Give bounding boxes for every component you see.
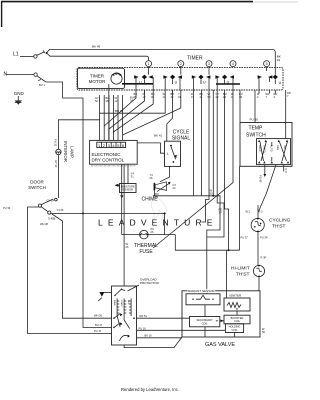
wire timer drop to temp switch left xyxy=(239,90,241,123)
svg-text:RACK: RACK xyxy=(258,145,261,152)
wire diagonal run xyxy=(153,94,233,249)
svg-text:DEL: DEL xyxy=(283,145,286,150)
svg-text:PU 32: PU 32 xyxy=(54,139,58,147)
svg-text:PROTECTOR: PROTECTOR xyxy=(140,281,160,285)
wire fuse to igniter bus xyxy=(175,235,239,251)
cycle signal label xyxy=(172,130,191,142)
thermal fuse label xyxy=(134,243,158,255)
timer terminal 4 xyxy=(230,61,236,67)
svg-text:LAMP: LAMP xyxy=(70,146,75,158)
svg-text:1: 1 xyxy=(148,62,150,66)
svg-text:PU 3P: PU 3P xyxy=(260,236,268,240)
svg-text:BK 49: BK 49 xyxy=(92,44,101,48)
hi-limit thermostat xyxy=(253,265,264,278)
svg-text:2: 2 xyxy=(180,62,182,66)
wire door bus down to fuse line xyxy=(164,213,166,234)
svg-text:TIMER: TIMER xyxy=(187,56,203,62)
wire BK 49 top run xyxy=(47,49,276,74)
label W 26 xyxy=(126,242,129,249)
overload protector contact xyxy=(114,289,125,297)
node thermal junction xyxy=(164,212,166,214)
wire temp switch left down xyxy=(239,166,241,250)
label BK 49 right xyxy=(277,55,281,63)
svg-text:SENSOR: SENSOR xyxy=(122,188,133,192)
coil link contacts xyxy=(221,320,224,323)
svg-text:SIGNAL: SIGNAL xyxy=(172,136,191,142)
igniter box xyxy=(224,298,250,311)
svg-text:GY 34: GY 34 xyxy=(47,199,55,203)
motor ground xyxy=(98,292,111,301)
gas valve assembly box xyxy=(182,291,260,337)
wire temp switch R2 stub xyxy=(283,165,285,172)
wire motor to EDC xyxy=(108,84,110,140)
svg-text:U: U xyxy=(279,81,282,85)
svg-text:U: U xyxy=(175,81,178,85)
svg-text:G 48B: G 48B xyxy=(48,217,56,221)
holding coil box xyxy=(225,324,243,333)
label RD 3P xyxy=(219,208,223,215)
wire door switch G48B down xyxy=(52,214,112,318)
label Y4 31 xyxy=(131,172,135,179)
svg-text:U: U xyxy=(203,81,206,85)
svg-text:TIMED: TIMED xyxy=(263,145,266,153)
timer motor M1 xyxy=(111,73,122,84)
wire chime stub xyxy=(153,190,155,195)
wire timer drop 209 xyxy=(208,90,210,196)
svg-text:BU 1: BU 1 xyxy=(39,83,45,87)
wire N down to motor xyxy=(83,213,112,327)
svg-text:MOTOR: MOTOR xyxy=(89,79,106,84)
label cluster EDC feeds xyxy=(95,96,134,104)
temp switch contact box xyxy=(257,139,291,165)
svg-text:COIL: COIL xyxy=(234,319,241,323)
svg-text:RADIANT SENSOR: RADIANT SENSOR xyxy=(188,289,215,293)
svg-text:CYCLING: CYCLING xyxy=(269,218,291,224)
svg-text:RD 51: RD 51 xyxy=(140,314,148,318)
overload pointer xyxy=(128,285,140,291)
motor windings xyxy=(113,299,135,329)
wire EDC to motor xyxy=(123,164,125,286)
svg-text:PU 17: PU 17 xyxy=(94,329,102,333)
svg-text:5: 5 xyxy=(266,62,268,66)
overload protector label xyxy=(140,278,160,286)
wire cycling to hi-limit xyxy=(257,232,259,266)
wire N lead xyxy=(6,74,34,76)
node bracket junction xyxy=(228,249,230,251)
node BK49 junction xyxy=(46,52,48,54)
wire cycle signal to chime xyxy=(160,166,170,181)
wire timer drop bracket c xyxy=(207,90,224,237)
terminal stubs below timer box xyxy=(144,90,275,94)
door switch label xyxy=(28,180,46,191)
svg-text:WH 36: WH 36 xyxy=(94,314,102,318)
centrifugal switch arc xyxy=(120,335,130,341)
svg-text:3P: 3P xyxy=(219,211,222,215)
svg-text:GND: GND xyxy=(14,91,25,96)
svg-text:PU 40: PU 40 xyxy=(259,175,263,183)
svg-text:SWITCH: SWITCH xyxy=(246,133,266,139)
wire motor aux out xyxy=(137,329,226,331)
wire to timer cam 1 xyxy=(47,53,149,60)
wire timer drop 193 xyxy=(192,90,194,196)
svg-text:DOOR: DOOR xyxy=(30,180,44,185)
secondary coil box xyxy=(190,317,220,327)
svg-text:TIMER: TIMER xyxy=(90,74,105,79)
node N junction door line xyxy=(82,212,84,214)
timer terminal 1 xyxy=(146,61,152,67)
ground GND xyxy=(14,91,25,105)
label W 50 bottom xyxy=(262,327,265,334)
wire door switch left to bottom left xyxy=(28,207,112,334)
svg-text:BK 16: BK 16 xyxy=(145,334,153,338)
timer cam switch 1 xyxy=(134,67,153,90)
svg-text:LEADVENTURE: LEADVENTURE xyxy=(98,218,218,228)
svg-text:R 2: R 2 xyxy=(284,169,288,174)
booster coil box xyxy=(224,315,250,324)
wire hi-limit to gas valve xyxy=(258,277,260,291)
wire motor bk16 xyxy=(137,337,183,339)
svg-text:GAS VALVE: GAS VALVE xyxy=(205,342,235,348)
border frame top xyxy=(1,1,253,3)
svg-text:R 2: R 2 xyxy=(259,210,264,214)
label W 50 xyxy=(210,189,213,196)
temp switch label xyxy=(246,126,266,139)
label interior lamp xyxy=(63,141,75,162)
svg-text:49: 49 xyxy=(277,58,281,62)
moisture sensor xyxy=(115,184,137,199)
timer motor box xyxy=(78,68,125,88)
svg-text:L1: L1 xyxy=(13,52,19,58)
EDC bottom micro row xyxy=(91,165,136,167)
svg-text:SWITCH: SWITCH xyxy=(28,185,46,190)
wire motor to secondary coil xyxy=(137,317,190,319)
svg-text:TH'ST: TH'ST xyxy=(236,272,250,278)
timer cam switch 4 xyxy=(215,75,240,90)
switch L1 contact xyxy=(34,50,45,58)
border frame left xyxy=(1,1,3,27)
svg-text:PU 39: PU 39 xyxy=(250,118,259,122)
svg-text:FUSE: FUSE xyxy=(139,249,153,255)
wire timer drop 213 xyxy=(212,90,214,196)
wire bracket a stub xyxy=(202,196,210,222)
wire timer drop to temp switch mid xyxy=(254,90,256,123)
svg-text:GY 32: GY 32 xyxy=(54,160,58,168)
timer cam switch 3 xyxy=(192,67,211,90)
label GY 23 xyxy=(173,183,177,190)
wire EDC to moisture sensor xyxy=(127,164,129,183)
chime xyxy=(154,182,170,192)
svg-text:REG: REG xyxy=(276,145,279,150)
temp switch box xyxy=(240,123,292,167)
svg-text:MAIN: MAIN xyxy=(113,300,116,306)
timer terminal 5 xyxy=(264,61,270,67)
wire holding to bottom xyxy=(234,333,236,338)
svg-text:BU 34: BU 34 xyxy=(115,109,124,113)
timer cam switch 2 xyxy=(163,67,182,90)
label PU 26 xyxy=(151,227,155,234)
cycling thermostat xyxy=(251,218,264,233)
svg-text:COIL: COIL xyxy=(202,322,209,326)
cycling thermostat label xyxy=(269,218,291,230)
svg-text:BOOSTER: BOOSTER xyxy=(231,316,244,320)
wire EDC to cycle signal xyxy=(137,143,164,153)
timer cam switch 5 xyxy=(258,67,282,90)
svg-text:TEMP: TEMP xyxy=(249,126,264,132)
svg-text:Y4 36: Y4 36 xyxy=(57,208,64,212)
wire timer drop bracket d xyxy=(225,90,229,250)
cycle signal box xyxy=(165,141,181,166)
svg-text:L: L xyxy=(167,152,169,156)
svg-text:HI-LIMIT: HI-LIMIT xyxy=(231,266,250,272)
node chime bus junction xyxy=(212,195,214,197)
label W 2 / R 2 xyxy=(246,210,264,214)
label RD 7 xyxy=(287,91,291,98)
svg-text:DRY CONTROL: DRY CONTROL xyxy=(92,158,125,163)
EDC terminals 1-6 xyxy=(97,142,126,148)
wire into cycling xyxy=(257,205,259,218)
svg-text:PU 33: PU 33 xyxy=(3,206,11,210)
svg-text:Rendered by LeadVenture, Inc.: Rendered by LeadVenture, Inc. xyxy=(121,387,179,392)
wire drops timer to EDC xyxy=(100,95,123,140)
wire lamp feed xyxy=(58,120,99,150)
svg-text:IGNITER: IGNITER xyxy=(229,293,242,297)
radiant sensor box xyxy=(186,294,220,305)
electronic dry control box xyxy=(90,140,138,164)
svg-text:SECONDARY: SECONDARY xyxy=(196,318,213,322)
watermark flame xyxy=(151,196,166,219)
wire igniter to booster xyxy=(236,311,238,315)
svg-text:AUX: AUX xyxy=(127,300,130,305)
svg-text:TH'ST: TH'ST xyxy=(272,224,286,230)
door switch xyxy=(33,198,57,214)
wire timer to temp switch right xyxy=(285,90,287,139)
svg-text:3: 3 xyxy=(208,62,210,66)
label Y4 26 xyxy=(150,173,154,180)
svg-text:HOLDING: HOLDING xyxy=(229,325,241,329)
wire motor bottom to gas valve corner xyxy=(124,337,182,348)
timer contact box xyxy=(77,67,283,90)
timer terminal labels row xyxy=(134,92,278,99)
wire L1 lead xyxy=(20,55,34,57)
drive motor box xyxy=(112,286,137,345)
label BU 24 xyxy=(155,192,159,199)
EDC label xyxy=(92,152,125,163)
svg-text:PU 16: PU 16 xyxy=(139,326,147,330)
svg-text:COIL: COIL xyxy=(231,328,238,332)
svg-text:START: START xyxy=(120,300,123,308)
svg-text:WH 38: WH 38 xyxy=(40,222,48,226)
svg-text:4: 4 xyxy=(232,62,234,66)
timer motor label xyxy=(89,74,106,85)
wire chime bottom bus xyxy=(153,196,220,294)
wire N run xyxy=(46,82,83,213)
switch N contact xyxy=(34,73,46,82)
svg-text:ELECTRONIC: ELECTRONIC xyxy=(92,152,122,157)
wire igniter feed xyxy=(226,250,228,298)
interior lamp DS1 xyxy=(56,149,61,198)
svg-text:BK 41: BK 41 xyxy=(154,134,163,138)
hi-limit label xyxy=(231,266,250,278)
wire temp switch to cycling xyxy=(264,165,266,174)
thermal fuse xyxy=(122,230,176,239)
svg-text:PU 37: PU 37 xyxy=(241,236,249,240)
wire fan diagonals to EDC xyxy=(100,90,181,141)
wire timer motor bus xyxy=(122,83,153,85)
timer terminal 2 xyxy=(178,61,184,67)
wire door switch right run xyxy=(51,212,165,214)
timer terminal 3 xyxy=(206,61,212,67)
svg-text:U: U xyxy=(139,81,142,85)
svg-text:BU 17: BU 17 xyxy=(95,323,103,327)
wire sensor to secondary xyxy=(204,305,206,317)
wire timer drop 201 xyxy=(201,90,203,196)
wire temp switch slant to cycling xyxy=(259,165,277,212)
svg-text:W 2: W 2 xyxy=(246,210,251,214)
svg-text:AUTO: AUTO xyxy=(269,145,272,152)
svg-text:INTERIOR: INTERIOR xyxy=(63,141,68,162)
wire EDC to thermal fuse xyxy=(121,164,123,234)
svg-text:R 3P: R 3P xyxy=(261,256,267,260)
wire secondary to bottom xyxy=(204,327,206,337)
